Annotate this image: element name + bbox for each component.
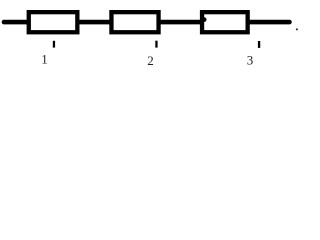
resistor R3 (box) [202, 12, 248, 32]
pin tick 2 [155, 41, 157, 48]
svg-text:2: 2 [147, 53, 154, 68]
wire R2 to R3 [158, 20, 203, 25]
wire R1 to R2 [77, 20, 112, 25]
svg-text:1: 1 [41, 52, 48, 67]
wire right lead [248, 20, 289, 25]
resistor R2 (box) [111, 12, 158, 32]
pin tick 1 [53, 41, 55, 48]
junction bump inside R3 left wall [202, 17, 207, 22]
resistor R1 (box) [29, 12, 78, 32]
terminal dot [296, 28, 298, 30]
svg-text:3: 3 [247, 53, 254, 68]
pin tick 3 [258, 41, 260, 48]
wire left lead [4, 20, 28, 25]
